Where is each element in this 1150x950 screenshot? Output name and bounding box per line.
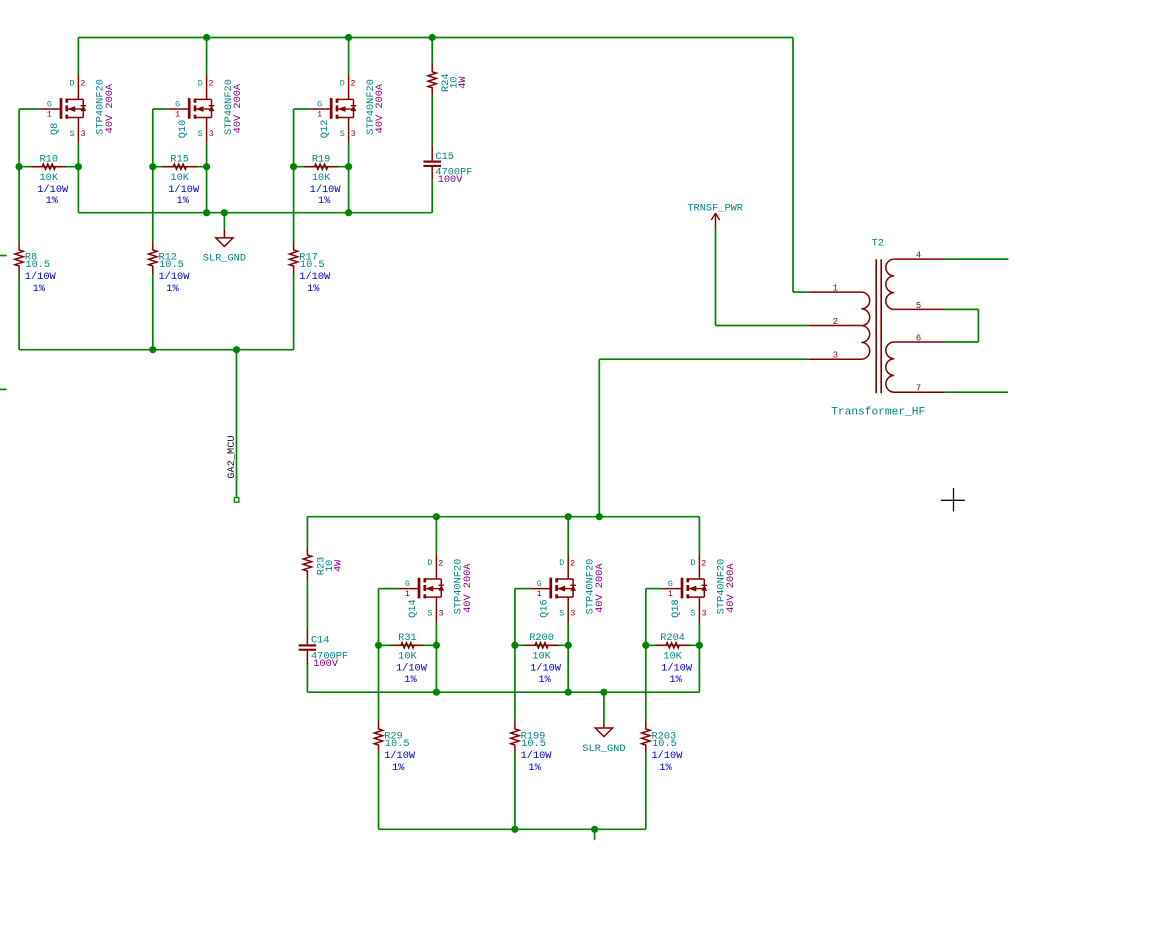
svg-text:R10: R10 [39,153,58,165]
svg-text:10.5: 10.5 [25,259,50,271]
svg-text:1/10W: 1/10W [652,750,684,762]
svg-text:2: 2 [701,559,706,568]
svg-text:100V: 100V [438,174,464,186]
svg-text:40V 200A: 40V 200A [232,83,244,133]
svg-text:Q16: Q16 [539,599,551,618]
svg-text:3: 3 [570,610,575,619]
svg-text:D: D [340,79,345,88]
svg-text:C15: C15 [435,151,454,163]
svg-text:Q8: Q8 [49,123,61,135]
svg-text:2: 2 [833,317,838,327]
svg-text:S: S [428,610,433,619]
svg-text:10.5: 10.5 [385,738,410,750]
svg-text:C14: C14 [311,635,330,647]
svg-text:10.5: 10.5 [521,738,546,750]
svg-text:40V 200A: 40V 200A [725,563,737,613]
svg-text:Transformer_HF: Transformer_HF [831,406,925,418]
svg-text:3: 3 [439,610,444,619]
svg-text:G: G [668,580,673,589]
svg-text:1/10W: 1/10W [521,750,553,762]
svg-text:1%: 1% [392,762,405,774]
svg-text:2: 2 [80,80,85,89]
svg-text:4W: 4W [457,76,469,89]
svg-text:G: G [317,100,322,109]
svg-text:3: 3 [351,130,356,139]
svg-text:40V 200A: 40V 200A [462,563,474,613]
svg-text:1: 1 [405,590,410,599]
svg-text:D: D [691,559,696,568]
svg-text:1: 1 [47,111,52,120]
svg-text:Q18: Q18 [670,599,682,618]
svg-text:1%: 1% [46,195,59,207]
svg-text:D: D [428,559,433,568]
svg-text:1/10W: 1/10W [159,271,191,283]
svg-text:1%: 1% [659,762,672,774]
svg-text:3: 3 [209,130,214,139]
svg-text:G: G [405,580,410,589]
svg-text:S: S [198,130,203,139]
svg-text:1: 1 [833,284,838,294]
svg-text:10K: 10K [532,651,551,663]
svg-text:1: 1 [175,111,180,120]
svg-text:10K: 10K [398,651,417,663]
svg-text:T2: T2 [872,238,884,250]
svg-text:10.5: 10.5 [652,738,677,750]
svg-text:1%: 1% [33,283,46,295]
svg-text:2: 2 [351,80,356,89]
svg-text:100V: 100V [313,658,339,670]
svg-text:S: S [691,610,696,619]
svg-text:2: 2 [209,80,214,89]
svg-text:Q10: Q10 [177,120,189,139]
svg-text:3: 3 [833,351,838,361]
svg-text:10K: 10K [312,172,331,184]
svg-text:R31: R31 [398,632,417,644]
svg-text:1/10W: 1/10W [25,271,57,283]
svg-text:40V 200A: 40V 200A [104,83,116,133]
svg-text:1%: 1% [538,674,551,686]
svg-text:1%: 1% [404,674,417,686]
svg-text:1%: 1% [166,283,179,295]
svg-text:1%: 1% [528,762,541,774]
svg-text:5: 5 [916,301,921,311]
svg-text:1/10W: 1/10W [299,271,331,283]
svg-text:GA2_MCU: GA2_MCU [226,435,238,478]
svg-text:G: G [175,100,180,109]
svg-text:1/10W: 1/10W [530,662,562,674]
svg-text:G: G [47,100,52,109]
svg-text:1/10W: 1/10W [310,184,342,196]
svg-text:1/10W: 1/10W [168,184,200,196]
svg-text:R15: R15 [170,153,189,165]
svg-text:D: D [70,79,75,88]
svg-text:Q12: Q12 [319,120,331,139]
svg-text:1/10W: 1/10W [384,750,416,762]
svg-text:1%: 1% [669,674,682,686]
svg-text:3: 3 [702,610,707,619]
svg-text:D: D [198,79,203,88]
svg-text:1%: 1% [177,195,190,207]
svg-text:40V 200A: 40V 200A [374,83,386,133]
svg-text:6: 6 [916,333,921,343]
svg-text:3: 3 [81,130,86,139]
svg-text:2: 2 [570,559,575,568]
svg-text:R204: R204 [660,632,685,644]
svg-text:2: 2 [438,559,443,568]
svg-text:7: 7 [916,384,921,394]
svg-text:1/10W: 1/10W [661,662,693,674]
svg-text:SLR_GND: SLR_GND [203,253,246,265]
svg-text:1: 1 [317,111,322,120]
svg-text:R19: R19 [312,153,331,165]
svg-text:S: S [70,130,75,139]
svg-text:1/10W: 1/10W [37,184,69,196]
svg-text:4W: 4W [332,559,344,572]
svg-text:1%: 1% [307,283,320,295]
svg-text:10K: 10K [39,172,58,184]
svg-text:10K: 10K [663,651,682,663]
svg-text:1%: 1% [318,195,331,207]
svg-text:40V 200A: 40V 200A [594,563,606,613]
svg-text:TRNSF_PWR: TRNSF_PWR [687,203,743,215]
svg-text:SLR_GND: SLR_GND [582,743,625,755]
svg-text:1/10W: 1/10W [396,662,428,674]
svg-text:10.5: 10.5 [159,259,184,271]
svg-text:R200: R200 [529,632,554,644]
svg-text:G: G [537,580,542,589]
svg-text:4: 4 [916,251,921,261]
svg-text:S: S [559,610,564,619]
svg-text:10.5: 10.5 [300,259,325,271]
svg-text:Q14: Q14 [407,599,419,618]
svg-text:D: D [559,559,564,568]
svg-text:10K: 10K [170,172,189,184]
svg-text:1: 1 [537,590,542,599]
svg-text:1: 1 [668,590,673,599]
svg-text:S: S [340,130,345,139]
